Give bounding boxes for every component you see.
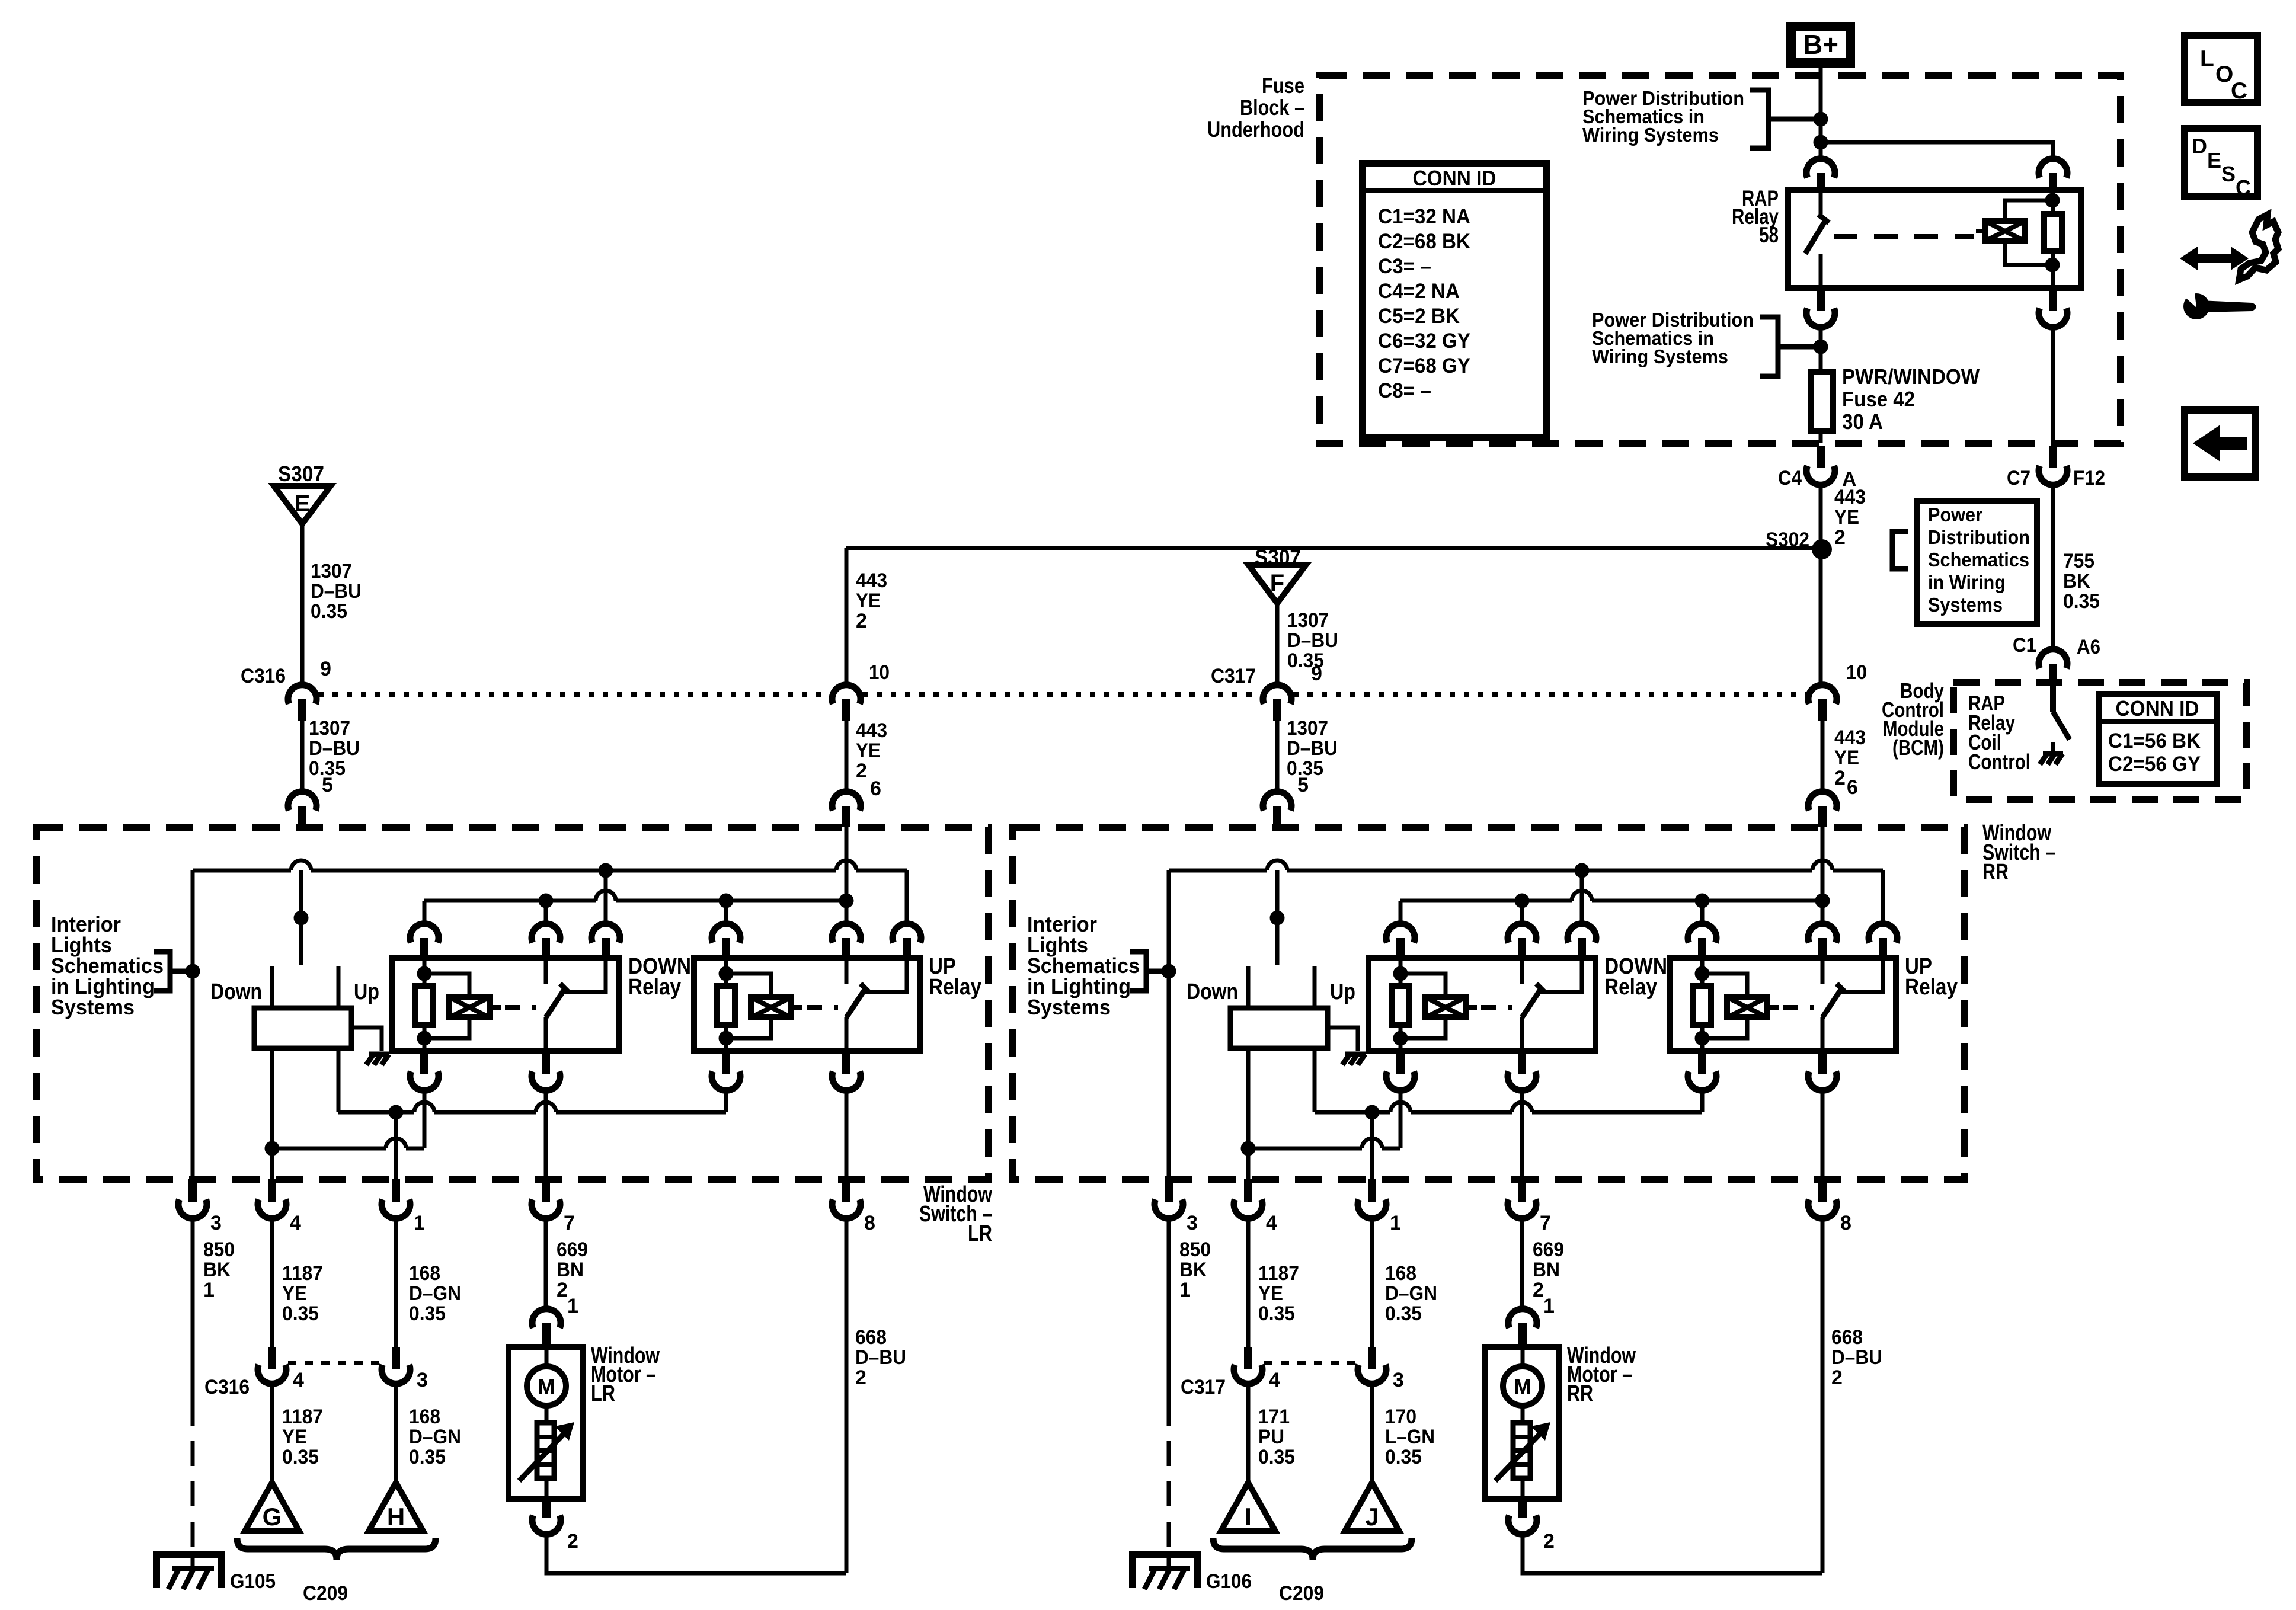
svg-text:D–BU: D–BU (1287, 629, 1338, 652)
svg-text:Fuse: Fuse (1262, 73, 1304, 98)
junction wire B / pin 4 wire, switch RR (1241, 1141, 1256, 1156)
wire: pin 6 feed drop through bus hop, switch RR (1821, 827, 1825, 901)
svg-text:YE: YE (282, 1282, 307, 1305)
junction coil feed / UP relay coil pin, switch RR (1695, 894, 1710, 908)
connector C4 A (1817, 446, 1825, 468)
svg-text:D–GN: D–GN (409, 1426, 461, 1448)
pin 4 connector, switch RR (1244, 1179, 1252, 1202)
wire to triangle H/J, LR (394, 1384, 398, 1483)
svg-text:D–GN: D–GN (1385, 1282, 1437, 1305)
window motor RR box (1485, 1347, 1559, 1499)
svg-text:2: 2 (1834, 526, 1846, 549)
junction wire A / pin 1 drop, switch RR (1365, 1105, 1380, 1120)
wire: ground bus (top horizontal) in switch RR (1167, 870, 1171, 872)
fuse block underhood dashed box (1319, 75, 2121, 443)
svg-text:PWR/WINDOW: PWR/WINDOW (1842, 364, 1980, 389)
UP relay box, switch RR (1670, 958, 1896, 1051)
pin 1 connector, switch LR (392, 1179, 400, 1202)
svg-text:S307: S307 (278, 462, 324, 486)
pin 7 connector, switch LR (542, 1179, 550, 1202)
window motor LR circuit breaker (545, 1406, 549, 1423)
svg-text:BK: BK (203, 1259, 231, 1281)
svg-text:Up: Up (354, 980, 379, 1004)
wire: DOWN relay NO pin drop, switch LR (604, 870, 608, 924)
wire: pin 3 drop, switch LR (191, 870, 195, 1179)
bracket for power distribution (top) (1750, 90, 1769, 148)
svg-text:PU: PU (1258, 1426, 1284, 1448)
wire B: Down contact branch to DOWN relay coil return, switch RR (1399, 1089, 1403, 1148)
svg-text:0.35: 0.35 (282, 1446, 319, 1468)
window motor LR bottom connector pin 2 (542, 1499, 551, 1518)
interior lights bracket, switch RR (1130, 952, 1146, 991)
svg-text:BK: BK (2063, 570, 2090, 593)
svg-text:C2=56 GY: C2=56 GY (2108, 753, 2201, 776)
svg-text:I: I (1245, 1503, 1252, 1531)
UP relay bottom pins, switch RR (1698, 1051, 1706, 1074)
wire: DOWN relay NO pin drop, switch RR (1580, 870, 1584, 924)
wire 1187 YE, RR (1246, 1217, 1251, 1347)
CONN ID table (BCM) (2099, 694, 2217, 784)
svg-text:BK: BK (1179, 1259, 1207, 1281)
RAP relay link dashes (1834, 234, 1974, 239)
wire: S302 branch to LR switch (846, 546, 1822, 550)
svg-text:168: 168 (409, 1262, 440, 1285)
svg-text:G: G (263, 1503, 282, 1531)
window switch RR dashed enclosure box (1012, 827, 1965, 1179)
svg-text:850: 850 (1179, 1238, 1211, 1261)
connector C209 row: pin 4 inline connector, RR (1244, 1347, 1252, 1369)
wire: pin10 to pin 6 LR (845, 721, 849, 792)
svg-text:YE: YE (1834, 747, 1859, 769)
wire: coil feed (second horizontal) in switch RR (1399, 901, 1403, 924)
svg-text:1307: 1307 (1287, 609, 1329, 632)
svg-text:669: 669 (1533, 1238, 1564, 1261)
window motor RR circuit breaker (1521, 1406, 1525, 1423)
junction dot B+ / coil branch (1814, 135, 1828, 150)
svg-text:1: 1 (567, 1295, 578, 1317)
svg-text:1: 1 (203, 1279, 215, 1301)
junction dot B+ / PD schematics (1814, 112, 1828, 127)
svg-text:L: L (2200, 46, 2214, 72)
pin 8 connector, switch RR (1818, 1179, 1827, 1202)
wire: DOWN relay common to pin 7, switch RR (1520, 1089, 1524, 1179)
wire A: Up contact to UP relay coil return, switch LR (337, 1048, 341, 1112)
RAP relay resistor (2044, 214, 2062, 251)
window rocker switch body, switch LR (299, 870, 303, 965)
svg-text:C316: C316 (204, 1376, 250, 1398)
junction wire B / pin 4 wire, switch LR (265, 1141, 280, 1156)
svg-text:6: 6 (870, 777, 881, 800)
wire: DOWN relay common to pin 7, switch LR (544, 1089, 548, 1179)
svg-text:170: 170 (1385, 1406, 1416, 1428)
svg-text:E: E (295, 491, 311, 517)
svg-text:668: 668 (1831, 1326, 1863, 1349)
wire: UP relay common to pin 8, switch RR (1821, 1089, 1825, 1179)
wire: bus corner down to UP relay NO pin, switch RR (1881, 870, 1885, 924)
svg-text:443: 443 (856, 719, 887, 742)
switch ground stub and chassis ground, switch RR (1328, 1028, 1358, 1051)
junction coil feed / DOWN relay common, switch RR (1515, 894, 1530, 908)
svg-text:Fuse 42: Fuse 42 (1842, 387, 1915, 411)
splice S302 (1812, 539, 1832, 559)
svg-text:C1: C1 (2013, 634, 2036, 657)
svg-text:G105: G105 (230, 1570, 276, 1593)
splice triangle H (369, 1483, 423, 1531)
svg-text:C3= –: C3= – (1378, 255, 1431, 278)
svg-text:C317: C317 (1181, 1376, 1226, 1398)
window motor RR bottom connector pin 2 (1518, 1499, 1527, 1518)
svg-text:1: 1 (1179, 1279, 1191, 1301)
DOWN relay bottom pins, switch LR (420, 1051, 428, 1074)
wire 668 D-BU 2 to motor return, LR (845, 1217, 849, 1573)
svg-text:8: 8 (1840, 1212, 1851, 1234)
window motor RR top connector pin 1 (1508, 1309, 1537, 1328)
DOWN relay movable contact, switch RR (1522, 990, 1540, 1017)
svg-text:D: D (2192, 134, 2207, 158)
svg-text:3: 3 (1393, 1369, 1404, 1391)
DOWN relay box, switch RR (1368, 958, 1595, 1051)
svg-text:3: 3 (417, 1369, 428, 1391)
svg-text:0.35: 0.35 (1385, 1302, 1422, 1325)
svg-text:3: 3 (1187, 1212, 1198, 1234)
svg-text:Distribution: Distribution (1928, 526, 2030, 548)
svg-text:2: 2 (1834, 767, 1846, 789)
wire: ground bus (top horizontal) in switch LR (191, 870, 195, 872)
pin 3 connector, switch LR (188, 1179, 197, 1202)
junction coil feed / pin6 drop, switch LR (839, 894, 854, 908)
DOWN relay bottom pins, switch RR (1396, 1051, 1405, 1074)
svg-text:G106: G106 (1206, 1570, 1252, 1593)
wire: coil feed (second horizontal) in switch LR (423, 901, 427, 924)
svg-text:CONN ID: CONN ID (2116, 696, 2199, 721)
wire: C317-9 to switch pin 5 RR (1275, 721, 1280, 792)
svg-text:in Wiring: in Wiring (1928, 571, 2006, 593)
svg-text:Systems: Systems (1027, 995, 1111, 1019)
icon box back arrow (2185, 410, 2256, 477)
wire 850 BK 1 to ground, LR (191, 1217, 195, 1401)
wire: coil return to C7 (2051, 326, 2055, 443)
svg-text:YE: YE (1834, 506, 1859, 529)
svg-text:D–GN: D–GN (409, 1282, 461, 1305)
svg-text:7: 7 (564, 1212, 575, 1234)
dotted connector line C316/C317 lower, RR (1264, 1361, 1356, 1365)
svg-text:LR: LR (968, 1221, 992, 1246)
splice triangle S307 E (274, 486, 331, 524)
UP relay movable contact, switch RR (1822, 990, 1841, 1017)
svg-text:1: 1 (414, 1212, 425, 1234)
svg-text:C2=68 BK: C2=68 BK (1378, 230, 1470, 253)
svg-text:1: 1 (1390, 1212, 1401, 1234)
pin 7 connector, switch RR (1518, 1179, 1526, 1202)
junction coil feed / pin6 drop, switch RR (1815, 894, 1830, 908)
window switch LR dashed enclosure box (36, 827, 989, 1179)
wire: B+ feed down to RAP relay (1819, 119, 1823, 159)
wire: pin10 to pin 6 RR (1821, 721, 1825, 792)
svg-text:Systems: Systems (51, 995, 135, 1019)
svg-text:2: 2 (1831, 1366, 1843, 1389)
wire: motor RR return to pin 8 wire (1523, 1534, 1822, 1573)
svg-text:Relay: Relay (628, 975, 681, 1000)
junction coil feed / DOWN relay common, switch LR (539, 894, 554, 908)
connector C209 row: pin 3 inline connector, RR (1368, 1347, 1376, 1369)
UP relay box, switch LR (694, 958, 920, 1051)
connector C1 A6 (2039, 649, 2067, 668)
svg-text:2: 2 (856, 610, 867, 632)
svg-text:171: 171 (1258, 1406, 1290, 1428)
svg-text:B+: B+ (1803, 29, 1838, 60)
RAP relay top pin 30 connector (1806, 159, 1835, 178)
connector C209 row: pin 4 inline connector, LR (268, 1347, 276, 1369)
svg-text:1307: 1307 (1287, 717, 1328, 740)
UP relay bottom pins, switch LR (722, 1051, 730, 1074)
svg-text:669: 669 (557, 1238, 588, 1261)
svg-text:A6: A6 (2077, 636, 2100, 658)
svg-text:5: 5 (322, 774, 333, 796)
ground symbol G106 (1133, 1554, 1198, 1588)
svg-text:YE: YE (1258, 1282, 1283, 1305)
svg-text:H: H (387, 1503, 405, 1531)
svg-text:4: 4 (1266, 1212, 1277, 1234)
svg-text:BN: BN (557, 1259, 584, 1281)
svg-text:C1=56 BK: C1=56 BK (2108, 729, 2201, 753)
wire: B+ down into fuse block (1819, 63, 1823, 118)
svg-text:2: 2 (855, 1366, 866, 1389)
svg-text:Schematics: Schematics (1928, 549, 2029, 571)
svg-text:58: 58 (1759, 223, 1779, 247)
svg-text:443: 443 (856, 569, 887, 592)
RAP relay switch contact (1819, 190, 1823, 215)
wire 669 BN 2 to motor, LR (544, 1217, 548, 1309)
svg-text:0.35: 0.35 (409, 1446, 446, 1468)
junction dot fuse feed (1814, 340, 1828, 354)
wire 669 BN 2 to motor, RR (1520, 1217, 1524, 1309)
splice triangle G (245, 1483, 299, 1531)
connector brace C209, LR (237, 1538, 436, 1560)
wire: C7 to BCM A6 (2051, 485, 2055, 649)
BCM driver switch to ground (2050, 683, 2056, 712)
svg-text:C1=32 NA: C1=32 NA (1378, 205, 1470, 228)
svg-text:S: S (2221, 162, 2236, 186)
UP relay internals, switch RR (1700, 958, 1705, 986)
window rocker switch body, switch RR (1275, 870, 1280, 965)
wire: bus corner down to UP relay NO pin, switch LR (905, 870, 909, 924)
svg-text:D–BU: D–BU (309, 737, 360, 760)
svg-text:C7=68 GY: C7=68 GY (1378, 354, 1470, 377)
svg-text:6: 6 (1847, 776, 1858, 799)
junction on ground bus at DOWN relay NO pin, switch RR (1575, 863, 1590, 878)
svg-text:Down: Down (1187, 980, 1238, 1004)
svg-text:Power: Power (1928, 504, 1982, 526)
svg-text:F12: F12 (2073, 467, 2105, 489)
wire 850 BK 1 to ground, RR (1167, 1217, 1171, 1401)
wire 168 D-GN, LR (394, 1217, 398, 1347)
svg-text:C8= –: C8= – (1378, 379, 1431, 402)
wire: branch to RAP relay coil side (1821, 142, 2053, 159)
wire A: Up contact to UP relay coil return, switch RR (1313, 1048, 1317, 1112)
B+ power feed box (1791, 27, 1850, 63)
svg-text:10: 10 (869, 661, 890, 684)
svg-text:1187: 1187 (282, 1262, 323, 1285)
svg-text:0.35: 0.35 (311, 600, 347, 623)
ground symbol G105 (156, 1554, 222, 1588)
svg-text:M: M (1514, 1374, 1531, 1398)
svg-text:168: 168 (409, 1406, 440, 1428)
icon box LOC (2185, 36, 2257, 103)
svg-text:2: 2 (1543, 1530, 1555, 1553)
svg-text:YE: YE (282, 1426, 307, 1448)
wire B: Down contact branch to DOWN relay coil return, switch LR (423, 1089, 427, 1148)
DOWN relay pins (domes), switch LR (410, 924, 439, 943)
svg-text:C209: C209 (1279, 1582, 1324, 1605)
UP relay movable contact, switch LR (846, 990, 865, 1017)
RAP relay bottom pin 87 connector (1817, 288, 1825, 311)
junction coil feed / UP relay coil pin, switch LR (719, 894, 734, 908)
dotted in-line connector line C316/C317 (318, 692, 830, 697)
interior lights bracket, switch LR (154, 952, 170, 991)
svg-text:2: 2 (567, 1530, 578, 1553)
bracket to power distribution box (S302) (1892, 532, 1908, 569)
svg-text:4: 4 (290, 1212, 301, 1234)
icon box DESC (2185, 129, 2257, 196)
icon vehicle service arrows and wrench (2180, 247, 2249, 270)
svg-text:10: 10 (1846, 661, 1867, 684)
svg-text:D–BU: D–BU (855, 1346, 906, 1369)
junction on ground bus at DOWN relay NO pin, switch LR (599, 863, 613, 878)
svg-text:1: 1 (1543, 1295, 1555, 1317)
svg-text:J: J (1365, 1503, 1379, 1531)
svg-text:F: F (1270, 570, 1284, 596)
svg-text:5: 5 (1297, 774, 1309, 796)
svg-text:Wiring Systems: Wiring Systems (1582, 124, 1719, 146)
wire: S307 E to C316-9 (300, 524, 305, 685)
svg-text:C209: C209 (303, 1582, 348, 1605)
svg-text:0.35: 0.35 (1258, 1446, 1295, 1468)
splice triangle J (1345, 1483, 1399, 1531)
boxed label Power Distribution Schematics in Wiring Systems (1917, 501, 2037, 624)
svg-text:D–BU: D–BU (1831, 1346, 1882, 1369)
svg-text:850: 850 (203, 1238, 235, 1261)
DOWN relay box, switch LR (392, 958, 619, 1051)
wire: pin 6 feed drop through bus hop, switch LR (845, 827, 849, 901)
svg-text:3: 3 (210, 1212, 222, 1234)
svg-text:1187: 1187 (1258, 1262, 1299, 1285)
svg-text:0.35: 0.35 (282, 1302, 319, 1325)
svg-text:C316: C316 (241, 665, 286, 687)
wire to triangle H/J, RR (1370, 1384, 1374, 1483)
svg-text:Relay: Relay (1905, 975, 1958, 1000)
BCM dashed box (1953, 683, 2246, 799)
svg-text:Systems: Systems (1928, 594, 2003, 616)
window motor LR box (509, 1347, 583, 1499)
RAP relay coil (2051, 190, 2055, 214)
svg-text:CONN ID: CONN ID (1413, 166, 1496, 190)
wire to triangle G/I, LR (270, 1384, 274, 1483)
wire: C4 to S302 to BCM pin 10 (1819, 485, 1823, 685)
wire: C316-9 to switch pin 5 (300, 721, 305, 792)
svg-text:C4: C4 (1778, 467, 1802, 489)
svg-text:0.35: 0.35 (409, 1302, 446, 1325)
svg-text:YE: YE (856, 740, 881, 762)
splice triangle I (1221, 1483, 1275, 1531)
svg-text:7: 7 (1540, 1212, 1551, 1234)
svg-text:C: C (2236, 175, 2251, 200)
DOWN relay internals, switch LR (423, 958, 427, 986)
svg-text:668: 668 (855, 1326, 887, 1349)
wire 1187 YE, LR (270, 1217, 274, 1347)
svg-text:1307: 1307 (309, 717, 350, 740)
RAP relay box (1788, 190, 2081, 288)
wire: RAP relay to fuse (1819, 326, 1823, 372)
wire: pin 3 drop, switch RR (1167, 870, 1171, 1179)
pin 8 connector, switch LR (842, 1179, 850, 1202)
svg-text:RR: RR (1567, 1381, 1593, 1406)
svg-text:LR: LR (591, 1381, 615, 1406)
svg-text:Down: Down (210, 980, 262, 1004)
svg-text:0.35: 0.35 (1258, 1302, 1295, 1325)
switch ground stub and chassis ground, switch LR (351, 1028, 382, 1051)
wire to triangle G/I, RR (1246, 1384, 1251, 1483)
svg-text:RR: RR (1982, 860, 2009, 885)
svg-text:C: C (2231, 78, 2247, 104)
splice triangle S307 F (1249, 565, 1306, 603)
svg-text:Relay: Relay (1604, 975, 1657, 1000)
svg-text:L–GN: L–GN (1385, 1426, 1435, 1448)
wire: fuse to C4 (1819, 431, 1823, 443)
svg-text:D–BU: D–BU (311, 580, 362, 603)
svg-text:443: 443 (1834, 726, 1866, 749)
svg-text:1187: 1187 (282, 1406, 323, 1428)
DOWN relay movable contact, switch LR (546, 990, 564, 1017)
svg-text:Up: Up (1330, 980, 1355, 1004)
svg-text:Block –: Block – (1240, 95, 1304, 120)
svg-text:C7: C7 (2007, 467, 2030, 489)
svg-text:168: 168 (1385, 1262, 1416, 1285)
junction wire A / pin 1 drop, switch LR (389, 1105, 404, 1120)
svg-text:9: 9 (1311, 662, 1322, 685)
svg-text:Wiring Systems: Wiring Systems (1592, 345, 1728, 367)
svg-text:M: M (538, 1374, 555, 1398)
svg-text:8: 8 (864, 1212, 875, 1234)
svg-text:C6=32 GY: C6=32 GY (1378, 329, 1470, 353)
pin 4 connector, switch LR (268, 1179, 276, 1202)
CONN ID table (fuse block) (1363, 164, 1546, 437)
connector brace C209, RR (1213, 1538, 1412, 1560)
wire: motor LR return to pin 8 wire (546, 1534, 846, 1573)
UP relay internals, switch LR (724, 958, 728, 986)
svg-text:0.35: 0.35 (2063, 590, 2100, 613)
svg-text:2: 2 (557, 1279, 568, 1301)
bracket for power distribution (lower) (1760, 317, 1778, 376)
svg-text:Underhood: Underhood (1207, 117, 1304, 142)
svg-text:Control: Control (1968, 750, 2030, 774)
wire 168 D-GN, RR (1370, 1217, 1374, 1347)
svg-text:9: 9 (320, 658, 331, 680)
svg-text:BN: BN (1533, 1259, 1560, 1281)
wire 668 D-BU 2 to motor return, RR (1821, 1217, 1825, 1573)
UP relay pins (domes), switch LR (712, 924, 740, 943)
connector C7 F12 (2049, 446, 2057, 468)
svg-text:YE: YE (856, 590, 881, 612)
svg-text:4: 4 (293, 1369, 304, 1391)
svg-text:D–BU: D–BU (1287, 737, 1338, 760)
svg-text:Relay: Relay (929, 975, 981, 1000)
svg-text:(BCM): (BCM) (1892, 735, 1944, 760)
UP relay pins (domes), switch RR (1688, 924, 1716, 943)
svg-text:C5=2 BK: C5=2 BK (1378, 305, 1460, 328)
dotted connector line C316/C317 lower, LR (288, 1361, 380, 1365)
svg-text:30 A: 30 A (1842, 409, 1883, 434)
pin 1 connector, switch RR (1368, 1179, 1376, 1202)
